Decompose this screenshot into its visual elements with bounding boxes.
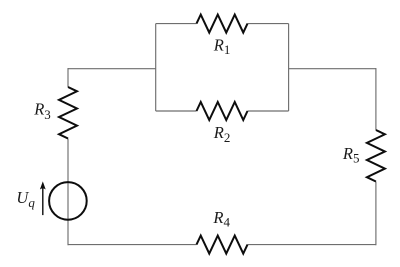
svg-text:R5: R5 bbox=[342, 144, 360, 166]
svg-text:Uq: Uq bbox=[16, 188, 35, 210]
voltage arrow shaft bbox=[42, 188, 44, 216]
voltage arrow head bbox=[40, 181, 46, 189]
wire bottom branch left stub bbox=[156, 110, 197, 112]
resistor R1 bbox=[197, 15, 248, 33]
wire top branch right stub bbox=[248, 23, 289, 25]
wire top-right horizontal bbox=[289, 68, 376, 70]
wire top-left horizontal bbox=[68, 68, 156, 70]
wire parallel-box right vertical bbox=[288, 24, 290, 111]
resistor R3 bbox=[59, 87, 77, 139]
resistor R2 bbox=[197, 102, 248, 120]
wire left vertical upper bbox=[67, 68, 69, 87]
voltage source Uq circle bbox=[49, 182, 87, 220]
wire parallel-box left vertical bbox=[155, 24, 157, 111]
wire bottom right segment bbox=[248, 244, 376, 246]
resistor R5 bbox=[367, 130, 385, 182]
resistor R4 bbox=[197, 236, 248, 254]
wire bottom branch right stub bbox=[248, 110, 289, 112]
wire right vertical upper bbox=[375, 68, 377, 130]
wire bottom left segment bbox=[68, 244, 197, 246]
svg-text:R4: R4 bbox=[212, 208, 230, 229]
wire top branch left stub bbox=[156, 23, 197, 25]
wire right vertical lower bbox=[375, 182, 377, 246]
svg-text:R1: R1 bbox=[213, 35, 231, 57]
svg-text:R2: R2 bbox=[213, 123, 231, 145]
svg-text:R3: R3 bbox=[33, 100, 51, 122]
wire left vertical lower (through source) bbox=[67, 139, 69, 246]
